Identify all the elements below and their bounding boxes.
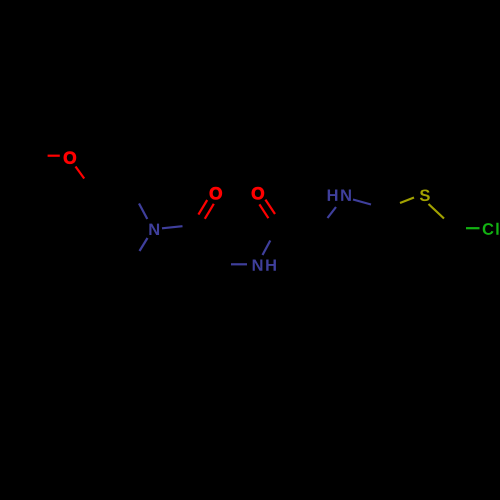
wire: CH2-N bond half (139, 204, 147, 220)
node S label (thiophene sulfur) (420, 189, 430, 201)
wire: CH3-O methoxy bond half (48, 155, 60, 157)
wire: NH-C(=O) bond half (263, 241, 271, 256)
node O label (left amide carbonyl oxygen) (210, 187, 222, 199)
node O label (right amide carbonyl oxygen) (252, 187, 264, 199)
node HN label (secondary amine nitrogen) (328, 190, 351, 201)
wire: left amide C=O double bond outer line (205, 204, 214, 219)
wire: left amide C=O double bond inner line (198, 200, 207, 215)
node Cl label (chlorine) (483, 223, 499, 235)
wire: O-CH2 bond half (76, 167, 85, 179)
wire: C-Cl bond half (466, 227, 480, 229)
wire: N-CH3 bond half (140, 238, 148, 251)
wire: right amide C=O double bond outer line (259, 204, 268, 218)
wire: C-S bond half left of sulfur (400, 198, 414, 204)
wire: CH-NH bond half (231, 263, 247, 265)
wire: right amide C=O double bond inner line (265, 200, 275, 214)
wire: HN-C bond half going down-left (328, 207, 337, 218)
node O label (methoxy oxygen) (64, 152, 76, 164)
node N label (tertiary amine nitrogen) (149, 224, 159, 235)
wire: N-C(=O) amide bond half (162, 226, 183, 228)
node NH label (amide nitrogen) (253, 259, 276, 270)
wire: HN-C bond half going down-right (353, 200, 371, 205)
wire: S-C bond half right of sulfur (429, 204, 445, 219)
